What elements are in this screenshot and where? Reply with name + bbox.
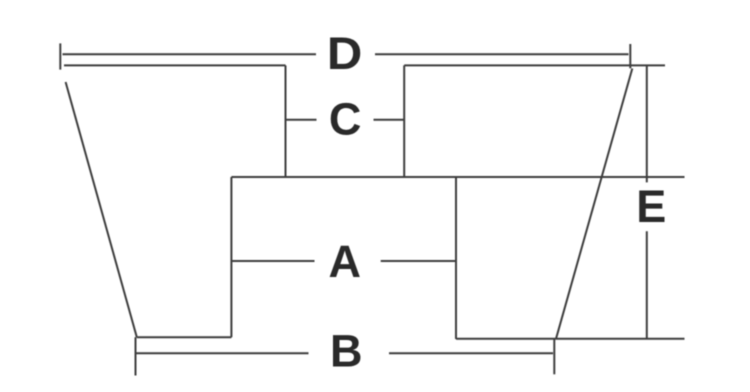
dimension B line left segment xyxy=(135,352,308,354)
dimension D line right segment xyxy=(375,53,629,55)
dimension D right tick xyxy=(629,44,631,68)
dimension E line lower segment xyxy=(646,231,648,338)
left slant edge xyxy=(66,82,137,337)
right slant edge xyxy=(556,69,632,339)
center channel right edge xyxy=(455,177,457,339)
left bottom edge xyxy=(137,336,232,338)
dimension B line right segment xyxy=(389,352,553,354)
svg-text:C: C xyxy=(329,93,362,144)
dimension B left tick xyxy=(135,337,137,375)
dimension B right tick xyxy=(553,339,555,375)
center channel left edge xyxy=(230,177,232,337)
right top edge xyxy=(404,64,665,66)
svg-text:E: E xyxy=(636,181,666,232)
right inner vertical edge xyxy=(403,65,405,177)
middle horizontal line xyxy=(231,176,684,178)
dimension A line left segment xyxy=(231,260,314,262)
left top edge xyxy=(64,64,286,66)
dimension C line left segment xyxy=(286,119,317,121)
svg-text:A: A xyxy=(329,236,362,287)
dimension C line right segment xyxy=(374,119,405,121)
dimension A line right segment xyxy=(381,260,456,262)
left inner vertical edge xyxy=(285,65,287,177)
right bottom edge xyxy=(456,338,685,340)
svg-text:D: D xyxy=(327,28,362,79)
svg-text:B: B xyxy=(330,326,363,377)
dimension D line left segment xyxy=(63,53,317,55)
dimension D left tick xyxy=(59,43,61,69)
dimension E line upper segment xyxy=(646,65,648,182)
